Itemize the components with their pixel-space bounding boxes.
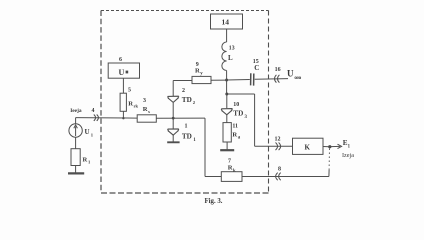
- svg-text:K: K: [305, 143, 311, 151]
- svg-text:rk: rk: [134, 103, 139, 108]
- svg-text:2: 2: [182, 88, 185, 94]
- svg-text:14: 14: [222, 18, 230, 27]
- svg-text:Ieeja: Ieeja: [70, 108, 82, 114]
- svg-text:1: 1: [88, 159, 91, 164]
- svg-text:8: 8: [278, 167, 281, 173]
- svg-text:TD: TD: [233, 110, 243, 118]
- svg-text:R: R: [83, 156, 88, 163]
- svg-text:6: 6: [119, 57, 122, 63]
- svg-text:s: s: [148, 109, 150, 114]
- svg-text:U: U: [119, 68, 125, 77]
- svg-text:R: R: [143, 106, 148, 113]
- svg-text:16: 16: [275, 67, 281, 73]
- svg-text:3: 3: [245, 115, 248, 120]
- svg-text:2: 2: [193, 100, 196, 105]
- svg-text:12: 12: [275, 137, 281, 143]
- svg-text:C: C: [254, 64, 259, 72]
- svg-text:1: 1: [91, 132, 94, 137]
- svg-text:U: U: [85, 128, 90, 136]
- svg-text:U: U: [287, 69, 294, 79]
- svg-text:R: R: [195, 68, 200, 75]
- svg-text:Fig. 3.: Fig. 3.: [205, 198, 223, 205]
- svg-text:L: L: [228, 54, 233, 62]
- svg-text:1: 1: [348, 144, 351, 149]
- svg-text:TD: TD: [182, 133, 192, 141]
- svg-text:5: 5: [128, 88, 131, 94]
- svg-text:a: a: [238, 135, 241, 140]
- svg-text:1: 1: [193, 138, 196, 143]
- svg-text:11: 11: [232, 123, 238, 129]
- svg-text:R: R: [128, 100, 133, 107]
- svg-text:13: 13: [229, 46, 235, 52]
- svg-text:4: 4: [92, 108, 95, 114]
- svg-text:k: k: [233, 167, 236, 172]
- svg-text:R: R: [232, 131, 237, 138]
- svg-text:R: R: [228, 164, 233, 171]
- svg-text:TD: TD: [182, 96, 192, 104]
- svg-text:ою: ою: [294, 75, 301, 81]
- svg-text:Izeja: Izeja: [342, 152, 354, 159]
- svg-text:1: 1: [185, 124, 188, 130]
- svg-text:10: 10: [233, 102, 239, 108]
- svg-text:y: y: [200, 72, 203, 77]
- svg-text:3: 3: [143, 98, 146, 104]
